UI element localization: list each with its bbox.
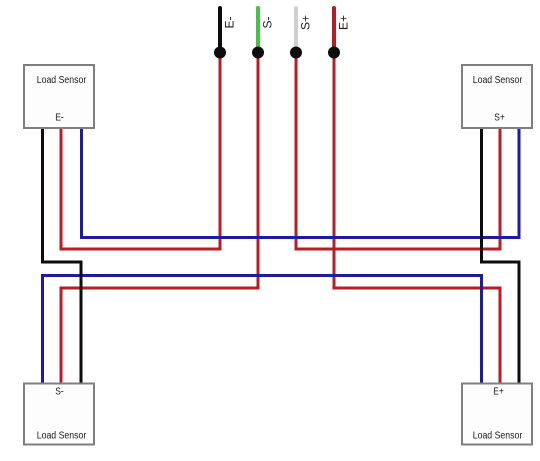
svg-text:E+: E+ (337, 15, 351, 30)
node E- junction (214, 47, 226, 59)
svg-text:Load Sensor: Load Sensor (473, 431, 523, 442)
node E+ junction (328, 47, 340, 59)
load sensor box top-right (462, 65, 532, 128)
wire blue: bottom-left sensor to bottom-right sensor (43, 276, 482, 385)
load sensor box bottom-left (24, 384, 94, 445)
svg-text:E-: E- (223, 16, 237, 28)
load sensor box bottom-right (462, 384, 532, 445)
wire black: top-right sensor to bottom-right sensor (482, 129, 520, 385)
wire S+ input stub (grey) (294, 8, 298, 50)
svg-text:E+: E+ (493, 387, 504, 398)
wire black: top-left sensor to bottom-left sensor (43, 129, 82, 385)
svg-text:S-: S- (261, 16, 275, 28)
svg-text:S-: S- (55, 387, 64, 398)
svg-text:S+: S+ (494, 113, 505, 124)
load sensor box top-left (24, 65, 94, 128)
svg-text:S+: S+ (299, 15, 313, 30)
svg-text:Load Sensor: Load Sensor (37, 75, 87, 86)
wire red: S- input to bottom-left sensor (61, 52, 258, 384)
svg-text:Load Sensor: Load Sensor (37, 431, 87, 442)
wire red: S+ input to top-right sensor (296, 52, 500, 249)
svg-text:Load Sensor: Load Sensor (473, 75, 523, 86)
node S- junction (252, 47, 264, 59)
node S+ junction (290, 47, 302, 59)
wire E- input stub (black) (218, 8, 222, 50)
wire red: E+ input to bottom-right sensor (334, 52, 500, 384)
wire S- input stub (green) (256, 8, 260, 50)
wire E+ input stub (red) (332, 8, 336, 50)
wire blue: top-left sensor to top-right sensor (82, 129, 520, 238)
wire red: E- input to top-left sensor (61, 52, 220, 249)
svg-text:E-: E- (55, 113, 64, 124)
